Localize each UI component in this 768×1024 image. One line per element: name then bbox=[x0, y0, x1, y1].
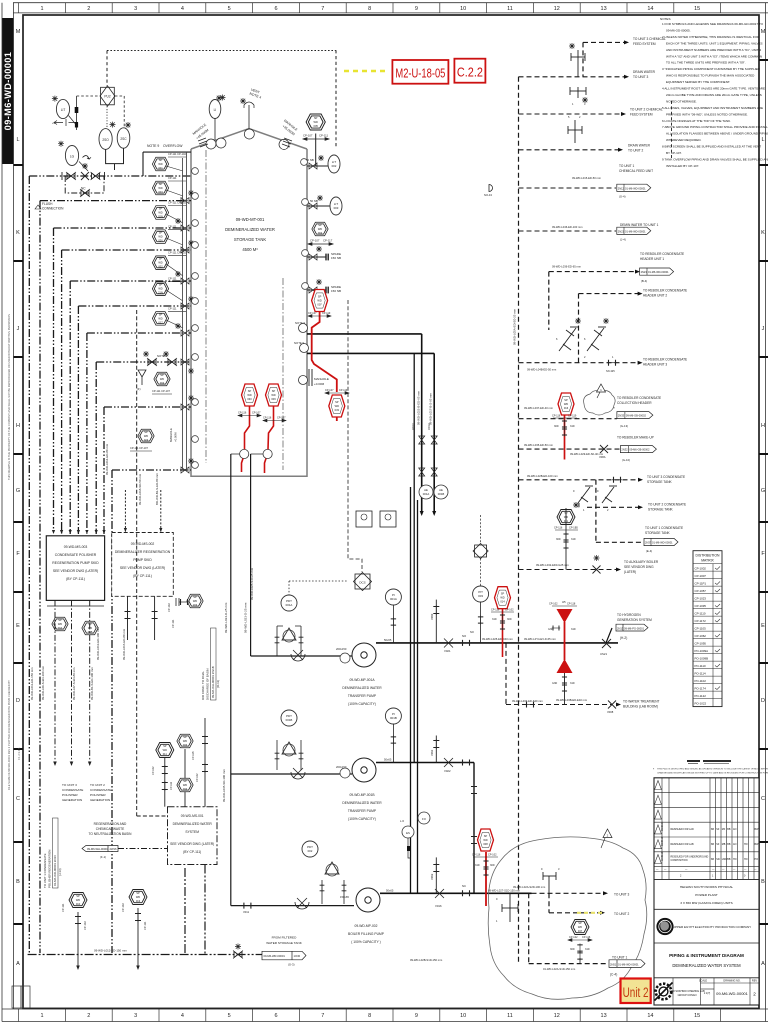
svg-text:PU2: PU2 bbox=[104, 95, 110, 99]
svg-text:TRANSFER PUMP: TRANSFER PUMP bbox=[348, 694, 377, 698]
svg-text:LIT: LIT bbox=[61, 108, 66, 112]
svg-text:SP: SP bbox=[159, 283, 163, 287]
svg-text:01-M6-WD-00001: 01-M6-WD-00001 bbox=[618, 962, 639, 966]
svg-text:CP-1007: CP-1007 bbox=[695, 574, 707, 578]
svg-text:SFr: SFr bbox=[716, 858, 720, 861]
plant name bbox=[654, 879, 759, 881]
svg-text:MATRIX: MATRIX bbox=[701, 559, 714, 563]
svg-text:9: 9 bbox=[415, 1013, 418, 1019]
svg-text:FEED SYSTEM: FEED SYSTEM bbox=[633, 42, 656, 46]
svg-text:024: 024 bbox=[144, 438, 149, 442]
PDT instruments pump A bbox=[281, 595, 297, 611]
svg-text:WD: WD bbox=[158, 316, 162, 320]
aux boiler valve bbox=[593, 566, 601, 574]
svg-text:CHEMICAL WASTE: CHEMICAL WASTE bbox=[96, 827, 124, 831]
unit1 condensate tree bbox=[565, 508, 567, 570]
svg-text:09-WD-L018-SD-50 mm: 09-WD-L018-SD-50 mm bbox=[138, 473, 142, 505]
spare nozzles bbox=[307, 254, 328, 294]
svg-text:CP-111: CP-111 bbox=[168, 306, 177, 310]
svg-text:031: 031 bbox=[564, 520, 569, 523]
svg-text:SB: SB bbox=[711, 858, 715, 861]
svg-text:TO UNIT 2: TO UNIT 2 bbox=[628, 149, 644, 153]
bottom right cloud bbox=[488, 837, 647, 999]
svg-text:CP-116: CP-116 bbox=[472, 854, 481, 857]
svg-text:REISSUED FOR LAB: REISSUED FOR LAB bbox=[671, 843, 695, 846]
svg-text:(F): (F) bbox=[137, 387, 141, 391]
svg-text:V063: V063 bbox=[430, 873, 434, 880]
svg-text:POLISHER REGENERATION: POLISHER REGENERATION bbox=[48, 850, 52, 888]
svg-text:WD: WD bbox=[193, 599, 197, 603]
svg-text:3 "INDICATED PIPING COMPONENT: 3 "INDICATED PIPING COMPONENT FURNISHED … bbox=[662, 67, 761, 71]
svg-text:1: 1 bbox=[496, 919, 498, 923]
svg-text:09-WD-L022-B-ED-65 mm: 09-WD-L022-B-ED-65 mm bbox=[417, 390, 421, 425]
svg-text:09-WD-L032-ED0-G25 mm: 09-WD-L032-ED0-G25 mm bbox=[536, 563, 569, 567]
svg-text:SEE VENDOR DWG: SEE VENDOR DWG bbox=[624, 565, 654, 569]
trees above MS-001 bbox=[165, 718, 205, 807]
svg-text:(B-4): (B-4) bbox=[641, 279, 647, 283]
svg-text:WD: WD bbox=[314, 120, 318, 124]
svg-text:CP-102: CP-102 bbox=[152, 766, 155, 775]
svg-text:PO-1022: PO-1022 bbox=[695, 701, 707, 705]
riser line-size labels bbox=[30, 443, 159, 700]
svg-text:FOR SOKHNDI CHEMING LAB: FOR SOKHNDI CHEMING LAB bbox=[669, 990, 705, 993]
svg-text:F: F bbox=[761, 551, 765, 557]
svg-text:GENERATION: GENERATION bbox=[62, 798, 82, 802]
svg-text:001A: 001A bbox=[390, 597, 397, 601]
svg-text:C.2.2: C.2.2 bbox=[457, 65, 483, 80]
svg-text:TO REBOILER CONDENSATE: TO REBOILER CONDENSATE bbox=[617, 396, 661, 400]
svg-text:12: 12 bbox=[554, 1013, 560, 1019]
tank shell bbox=[191, 129, 307, 477]
svg-text:TO HYDROGEN: TO HYDROGEN bbox=[617, 613, 641, 617]
svg-text:09-WD-MP-001A: 09-WD-MP-001A bbox=[349, 678, 375, 682]
svg-text:030: 030 bbox=[247, 397, 252, 401]
svg-text:2: 2 bbox=[753, 992, 756, 997]
svg-text:CP-111: CP-111 bbox=[168, 277, 177, 281]
svg-text:(O-11): (O-11) bbox=[216, 680, 220, 688]
svg-text:CP-119: CP-119 bbox=[568, 415, 577, 418]
svg-text:31D: 31D bbox=[571, 538, 576, 541]
svg-text:GROUP CONAN: GROUP CONAN bbox=[678, 994, 697, 997]
svg-text:DEMINERALIZED WATER: DEMINERALIZED WATER bbox=[342, 686, 382, 690]
svg-text:G: G bbox=[16, 488, 20, 494]
svg-text:09-WD-L035-SD-100 mm: 09-WD-L035-SD-100 mm bbox=[222, 769, 226, 802]
svg-text:SYSTEM: SYSTEM bbox=[185, 830, 199, 834]
svg-text:CP-1023: CP-1023 bbox=[695, 596, 707, 600]
leader lines from hexes to wall bbox=[166, 166, 183, 328]
regeneration waste text + arrow box bbox=[89, 822, 133, 836]
svg-text:WD: WD bbox=[483, 838, 487, 842]
svg-text:WHO IS RESPONSIBLE TO FURNISH: WHO IS RESPONSIBLE TO FURNISH THE MAIN A… bbox=[666, 74, 755, 78]
svg-text:DEMINERALIZED WATER SYSTEM: DEMINERALIZED WATER SYSTEM bbox=[672, 963, 741, 968]
left doc-number black bar bbox=[2, 18, 14, 164]
svg-text:5 ALL LINES, VALVES, EQUIPMEN: 5 ALL LINES, VALVES, EQUIPMENT AND INSTR… bbox=[662, 106, 763, 110]
arrows entering skid bbox=[52, 530, 106, 534]
svg-text:(J-4): (J-4) bbox=[620, 238, 626, 242]
svg-text:(G-4): (G-4) bbox=[619, 195, 626, 199]
discharge headers bbox=[376, 643, 618, 893]
svg-text:(BY CP-111): (BY CP-111) bbox=[183, 850, 201, 854]
svg-text:Unit 2: Unit 2 bbox=[623, 985, 649, 1000]
svg-text:TO UNIT 2: TO UNIT 2 bbox=[614, 912, 630, 916]
svg-text:033: 033 bbox=[335, 408, 340, 412]
svg-text:CP-107: CP-107 bbox=[325, 389, 334, 392]
svg-text:CONNECTION: CONNECTION bbox=[42, 207, 64, 211]
svg-text:2: 2 bbox=[607, 508, 609, 512]
svg-text:09-WD-L015-ED-50 mm: 09-WD-L015-ED-50 mm bbox=[572, 176, 602, 180]
svg-text:WD: WD bbox=[578, 925, 582, 929]
svg-text:BB: BB bbox=[727, 858, 731, 861]
skid box2 dashed bbox=[112, 533, 174, 597]
svg-text:(BY CP-111): (BY CP-111) bbox=[133, 574, 152, 578]
svg-text:7: 7 bbox=[321, 1013, 324, 1019]
svg-text:WD: WD bbox=[247, 393, 251, 397]
svg-text:(E-4): (E-4) bbox=[646, 549, 652, 553]
svg-text:SP: SP bbox=[272, 389, 276, 393]
svg-text:DISCHARGE OF BASIN: DISCHARGE OF BASIN bbox=[206, 669, 210, 700]
svg-text:TO UNIT 3 CONDENSATE: TO UNIT 3 CONDENSATE bbox=[647, 475, 685, 479]
svg-text:PO-1102: PO-1102 bbox=[695, 679, 707, 683]
line labels on verticals bbox=[417, 308, 517, 425]
svg-text:01-M6-WD-00001: 01-M6-WD-00001 bbox=[648, 270, 669, 274]
svg-text:09-M6-WR-00001: 09-M6-WR-00001 bbox=[264, 954, 286, 958]
svg-text:1: 1 bbox=[612, 355, 614, 359]
svg-text:E: E bbox=[761, 623, 765, 629]
svg-text:INSTALLED BY CP-107.: INSTALLED BY CP-107. bbox=[666, 164, 699, 168]
svg-text:(F-1): (F-1) bbox=[100, 855, 106, 859]
svg-text:CP-116: CP-116 bbox=[491, 609, 500, 612]
svg-text:(H-2): (H-2) bbox=[620, 636, 627, 640]
svg-text:BUILDING (LAB ROOM): BUILDING (LAB ROOM) bbox=[623, 705, 658, 709]
svg-text:REV: REV bbox=[752, 980, 757, 983]
svg-text:UPPER EGYPT ELECTRICITY PRODUC: UPPER EGYPT ELECTRICITY PRODUCTION COMPA… bbox=[673, 925, 751, 929]
nozzle y206 w/ LIT bbox=[307, 205, 330, 207]
svg-text:WD: WD bbox=[183, 783, 187, 787]
svg-text:SP: SP bbox=[314, 116, 318, 120]
svg-text:G: G bbox=[761, 488, 765, 494]
svg-text:V021: V021 bbox=[444, 649, 451, 653]
svg-text:30.09.19: 30.09.19 bbox=[661, 836, 664, 846]
svg-text:BOILER FILLING PUMP: BOILER FILLING PUMP bbox=[348, 932, 385, 936]
svg-text:SP: SP bbox=[193, 595, 197, 599]
svg-text:BR-WD-B2-S-ED-80 mm: BR-WD-B2-S-ED-80 mm bbox=[155, 472, 159, 505]
svg-text:150 NB: 150 NB bbox=[331, 256, 341, 260]
svg-text:2N33: 2N33 bbox=[618, 414, 625, 418]
svg-text:7: 7 bbox=[321, 6, 324, 12]
svg-text:5: 5 bbox=[228, 6, 231, 12]
2SO / 2SC circles bbox=[110, 122, 116, 128]
svg-text:SP: SP bbox=[76, 894, 80, 898]
svg-text:B: B bbox=[761, 879, 765, 885]
hexagon WD004 bbox=[312, 222, 328, 236]
svg-text:2N21: 2N21 bbox=[618, 230, 625, 234]
svg-text:SP: SP bbox=[564, 512, 568, 515]
make-up valve bbox=[600, 445, 608, 453]
svg-text:NOTE 9: NOTE 9 bbox=[147, 144, 159, 148]
svg-text:15: 15 bbox=[694, 6, 700, 12]
svg-text:13: 13 bbox=[601, 6, 607, 12]
branch 1 bbox=[519, 42, 644, 569]
svg-text:001B: 001B bbox=[390, 716, 397, 720]
svg-text:001A: 001A bbox=[286, 603, 293, 607]
svg-text:WD: WD bbox=[76, 898, 80, 902]
svg-text:WD: WD bbox=[318, 227, 322, 231]
suction strainers bbox=[291, 650, 309, 909]
wire risers descending bbox=[28, 176, 30, 953]
svg-text:DRAIN WATER: DRAIN WATER bbox=[633, 70, 656, 74]
svg-text:03.02.21: 03.02.21 bbox=[661, 821, 664, 831]
svg-text:TO UNIT 3: TO UNIT 3 bbox=[633, 75, 649, 79]
svg-text:(G-3): (G-3) bbox=[288, 963, 295, 967]
svg-text:SEE VENDOR DWG (LATER): SEE VENDOR DWG (LATER) bbox=[120, 566, 165, 570]
svg-text:017: 017 bbox=[158, 320, 163, 324]
svg-text:016: 016 bbox=[564, 406, 569, 410]
svg-text:09-WD-L09-S-ED-100 mm: 09-WD-L09-S-ED-100 mm bbox=[41, 665, 45, 700]
svg-text:DEMIN WATER TO UNIT 1: DEMIN WATER TO UNIT 1 bbox=[620, 223, 659, 227]
valves on discharge headers bbox=[435, 634, 521, 908]
svg-text:J: J bbox=[17, 326, 20, 332]
skid box1 bbox=[46, 536, 104, 601]
svg-text:AO: AO bbox=[733, 828, 737, 831]
LG with curved arrow bbox=[58, 141, 64, 147]
svg-text:CP-111 CP-107: CP-111 CP-107 bbox=[130, 446, 148, 450]
svg-text:CP-116: CP-116 bbox=[263, 417, 272, 420]
svg-text:§: § bbox=[653, 769, 655, 771]
svg-text:09-WD-L03B-ED-E40 mm: 09-WD-L03B-ED-E40 mm bbox=[556, 698, 588, 702]
svg-text:AND INSTRUMENT NUMBERS ARE PRE: AND INSTRUMENT NUMBERS ARE PREFIXED WITH… bbox=[666, 48, 761, 52]
arabic heading bbox=[687, 760, 731, 762]
collection header cloud + warning triangle bbox=[584, 390, 616, 415]
svg-text:CP-11P1: CP-11P1 bbox=[695, 581, 707, 585]
svg-text:WD: WD bbox=[58, 622, 62, 626]
svg-text:09-WD-L037-ED-40 mm: 09-WD-L037-ED-40 mm bbox=[524, 406, 554, 410]
pump B line turns down at 474 bbox=[473, 763, 475, 894]
suction downcomers from tank bbox=[231, 454, 354, 906]
vertical tag texts near MS-001 bbox=[201, 666, 226, 802]
PDT instruments pump C bbox=[302, 841, 318, 857]
svg-text:CP-102: CP-102 bbox=[167, 603, 171, 612]
svg-text:CP-1110: CP-1110 bbox=[695, 611, 706, 615]
nozzle y166 w/ hexagon WD005 bbox=[307, 134, 328, 167]
svg-text:6: 6 bbox=[556, 337, 558, 341]
PDT instruments pump B bbox=[281, 710, 297, 726]
svg-text:CP-119: CP-119 bbox=[339, 389, 348, 392]
svg-text:1: 1 bbox=[40, 1013, 43, 1019]
svg-text:TO AUXILIARY BOILER: TO AUXILIARY BOILER bbox=[624, 560, 659, 564]
svg-text:SP: SP bbox=[335, 400, 339, 404]
red hexagon near PIT003 bbox=[502, 609, 504, 657]
svg-text:HEADER UNIT 1: HEADER UNIT 1 bbox=[640, 257, 664, 261]
svg-text:09-WD-L036-ED-65 mm: 09-WD-L036-ED-65 mm bbox=[552, 265, 582, 269]
svg-text:PO-1110: PO-1110 bbox=[695, 664, 707, 668]
svg-text:2N37: 2N37 bbox=[645, 541, 652, 545]
svg-text:CP-1062: CP-1062 bbox=[695, 634, 707, 638]
svg-text:CP-102: CP-102 bbox=[549, 603, 558, 606]
svg-text:WD: WD bbox=[158, 235, 162, 239]
tank label bbox=[225, 217, 275, 252]
svg-text:09B: 09B bbox=[88, 630, 93, 634]
svg-text:SP: SP bbox=[183, 735, 187, 739]
svg-text:HO: HO bbox=[744, 843, 748, 846]
svg-text:COMPOSITION: COMPOSITION bbox=[671, 859, 688, 862]
svg-text:10: 10 bbox=[460, 6, 466, 12]
svg-text:200x150: 200x150 bbox=[336, 647, 347, 651]
svg-text:01-M6-WD-00001: 01-M6-WD-00001 bbox=[652, 541, 673, 545]
svg-text:WD: WD bbox=[158, 186, 162, 190]
svg-text:9 TANK OVERFLOW PIPING AND DR: 9 TANK OVERFLOW PIPING AND DRAIN VALVES … bbox=[662, 157, 768, 161]
pump C volute bbox=[356, 888, 380, 912]
svg-text:K: K bbox=[16, 230, 20, 236]
svg-text:A: A bbox=[16, 961, 20, 967]
svg-text:2SC: 2SC bbox=[120, 137, 127, 141]
svg-text:RIO CONC. TO FINAL: RIO CONC. TO FINAL bbox=[201, 671, 205, 700]
svg-text:THIS DRAWING IS THE PROPERTY O: THIS DRAWING IS THE PROPERTY OF THE COMP… bbox=[7, 314, 11, 480]
svg-text:( 100% CAPACITY ): ( 100% CAPACITY ) bbox=[351, 940, 381, 944]
svg-text:CP-1B5: CP-1B5 bbox=[569, 527, 578, 530]
svg-text:L: L bbox=[761, 137, 764, 143]
svg-text:CP-102: CP-102 bbox=[488, 854, 497, 857]
destination texts bbox=[617, 37, 687, 574]
svg-text:DEMINERALIZED WATER: DEMINERALIZED WATER bbox=[225, 227, 275, 232]
svg-text:3: 3 bbox=[134, 1013, 137, 1019]
svg-text:PREFIXED WITH "09-WD", UNLESS: PREFIXED WITH "09-WD", UNLESS NOTED OTHE… bbox=[666, 112, 748, 116]
svg-text:TO UNIT 1 CONDENSATE: TO UNIT 1 CONDENSATE bbox=[43, 853, 47, 888]
svg-text:H: H bbox=[16, 423, 20, 429]
svg-text:09-WD-L017-B-S-65 mm: 09-WD-L017-B-S-65 mm bbox=[429, 392, 433, 425]
svg-text:AO: AO bbox=[733, 843, 737, 846]
svg-text:REGENERATION PUMP SKID: REGENERATION PUMP SKID bbox=[52, 561, 99, 565]
svg-text:TO NEUTRALIZATION BASIN: TO NEUTRALIZATION BASIN bbox=[89, 832, 133, 836]
svg-text:2: 2 bbox=[87, 1013, 90, 1019]
svg-text:3 X 650 MW (GAS/OIL FIRED) UNI: 3 X 650 MW (GAS/OIL FIRED) UNITS bbox=[680, 901, 733, 905]
svg-text:HO: HO bbox=[733, 858, 737, 861]
svg-text:PO-1114: PO-1114 bbox=[695, 671, 707, 675]
svg-text:CONDENSATE: CONDENSATE bbox=[62, 788, 83, 792]
LIT with star bbox=[52, 96, 58, 102]
headers from tank bbox=[307, 334, 434, 514]
svg-text:09-M6-WH-00001: 09-M6-WH-00001 bbox=[87, 847, 109, 851]
svg-text:(BY CP-111): (BY CP-111) bbox=[66, 577, 85, 581]
svg-text:DEMINERALIZED WATER: DEMINERALIZED WATER bbox=[342, 801, 382, 805]
signal square on line x76.6 bbox=[76, 96, 78, 130]
svg-text:POLISHER: POLISHER bbox=[90, 793, 106, 797]
svg-text:CP-107: CP-107 bbox=[303, 134, 313, 138]
top ruler bbox=[13, 3, 768, 13]
svg-text:014: 014 bbox=[500, 600, 505, 604]
row letters left bbox=[16, 29, 21, 967]
company logo bbox=[656, 918, 673, 935]
svg-text:02N: 02N bbox=[158, 215, 163, 219]
svg-text:09-WD-MS-001: 09-WD-MS-001 bbox=[181, 814, 204, 818]
svg-text:CONDENSATE POLISHER: CONDENSATE POLISHER bbox=[55, 553, 97, 557]
svg-text:2SO: 2SO bbox=[102, 138, 109, 142]
svg-text:034: 034 bbox=[183, 787, 188, 791]
pump A volute bbox=[352, 643, 376, 667]
svg-text:V062: V062 bbox=[430, 749, 434, 756]
box1 bottom outlets bbox=[55, 600, 90, 762]
svg-text:0 1 2 3 4 5: 0 1 2 3 4 5 bbox=[17, 747, 21, 760]
svg-text:TO WATER TREATMENT: TO WATER TREATMENT bbox=[623, 700, 660, 704]
svg-text:13: 13 bbox=[601, 1013, 607, 1019]
svg-text:CP-111: CP-111 bbox=[168, 176, 177, 180]
svg-text:1: 1 bbox=[583, 508, 585, 512]
svg-text:3: 3 bbox=[584, 102, 586, 106]
svg-text:SP: SP bbox=[318, 295, 322, 299]
svg-text:NOTES: NOTES bbox=[660, 17, 671, 21]
svg-text:09-M6-WD-00001: 09-M6-WD-00001 bbox=[3, 52, 13, 131]
svg-text:DEMINERALIZER REGENERATION: DEMINERALIZER REGENERATION bbox=[115, 550, 171, 554]
svg-text:NO: NO bbox=[470, 630, 474, 634]
svg-text:TO UNIT 2 CHEMICAL: TO UNIT 2 CHEMICAL bbox=[630, 108, 663, 112]
vent bbox=[248, 105, 250, 129]
svg-text:007: 007 bbox=[317, 303, 322, 307]
svg-text:CP-1095: CP-1095 bbox=[695, 641, 707, 645]
svg-text:M: M bbox=[761, 29, 766, 35]
svg-text:(G-10): (G-10) bbox=[622, 458, 630, 462]
svg-text:CP-107: CP-107 bbox=[308, 312, 317, 315]
svg-text:NOTE 4: NOTE 4 bbox=[249, 92, 262, 100]
svg-text:31D: 31D bbox=[570, 425, 575, 428]
svg-text:SEE VENDOR DWG (LATER): SEE VENDOR DWG (LATER) bbox=[53, 569, 98, 573]
svg-text:2N51: 2N51 bbox=[610, 962, 617, 966]
svg-text:CP-111: CP-111 bbox=[171, 619, 175, 628]
svg-text:CP-102: CP-102 bbox=[505, 609, 514, 612]
roof nozzle circles bbox=[206, 129, 289, 149]
svg-text:8: 8 bbox=[368, 1013, 371, 1019]
svg-text:STORAGE TANK: STORAGE TANK bbox=[234, 237, 267, 242]
ES/LO circles pump C bbox=[340, 653, 350, 663]
D-valve on unit1 chem feed bbox=[489, 185, 493, 192]
svg-text:2 UNLESS NOTED OTHERWISE, THI: 2 UNLESS NOTED OTHERWISE, THIS DRAWING I… bbox=[662, 35, 760, 39]
overflow connector to tank bbox=[143, 152, 191, 176]
red hexagon collection header bbox=[564, 415, 566, 460]
revision table bbox=[654, 778, 759, 880]
long verticals bbox=[411, 353, 418, 893]
svg-text:09-WD-L011-ED-150 mm: 09-WD-L011-ED-150 mm bbox=[30, 667, 34, 700]
svg-text:FROM FILTERED: FROM FILTERED bbox=[272, 936, 297, 940]
bottom instrument trees bbox=[78, 908, 138, 968]
svg-text:CP-116: CP-116 bbox=[238, 412, 247, 415]
wall nozzle valves+stars on each line bbox=[175, 190, 194, 473]
svg-text:4500 M³: 4500 M³ bbox=[242, 247, 258, 252]
svg-text:1O30: 1O30 bbox=[294, 954, 301, 958]
svg-text:09A: 09A bbox=[58, 626, 63, 630]
svg-text:09-M6-WD-00001: 09-M6-WD-00001 bbox=[716, 991, 749, 996]
svg-text:3: 3 bbox=[558, 867, 560, 871]
svg-text:11: 11 bbox=[507, 1013, 513, 1019]
svg-text:TO ALL THE THREE UNITS ARE PRE: TO ALL THE THREE UNITS ARE PREFIXED WITH… bbox=[666, 61, 746, 65]
svg-text:FILE NAME 09-M6-WD-00001 REV 2: FILE NAME 09-M6-WD-00001 REV 2 PLOTTED 2… bbox=[7, 680, 11, 790]
svg-text:15: 15 bbox=[694, 1013, 700, 1019]
svg-text:033: 033 bbox=[183, 743, 188, 747]
svg-text:EACH OF THE THREE UNITS. UNIT: EACH OF THE THREE UNITS. UNIT 1 EQUIPMEN… bbox=[666, 41, 763, 45]
svg-text:09-WD-L014-ED-80 mm: 09-WD-L014-ED-80 mm bbox=[105, 443, 109, 475]
svg-text:G3D: G3D bbox=[548, 628, 553, 631]
svg-text:CP-1002: CP-1002 bbox=[695, 566, 707, 570]
svg-text:SP: SP bbox=[136, 891, 140, 895]
bottom strip bbox=[673, 978, 759, 1005]
svg-text:09-WD-MS-002: 09-WD-MS-002 bbox=[131, 542, 155, 546]
svg-text:003: 003 bbox=[158, 190, 163, 194]
svg-text:G3D: G3D bbox=[552, 682, 557, 685]
svg-text:CP-111 CP-102: CP-111 CP-102 bbox=[168, 251, 186, 255]
svg-text:CP-111 CP-107: CP-111 CP-107 bbox=[152, 389, 170, 393]
svg-text:V022: V022 bbox=[444, 769, 451, 773]
svg-text:DEMINERALIZED WATER: DEMINERALIZED WATER bbox=[173, 822, 213, 826]
svg-text:01-M6-WD-00001: 01-M6-WD-00001 bbox=[625, 230, 646, 234]
svg-text:026: 026 bbox=[158, 239, 163, 243]
svg-text:CONDENSATE: CONDENSATE bbox=[90, 788, 111, 792]
